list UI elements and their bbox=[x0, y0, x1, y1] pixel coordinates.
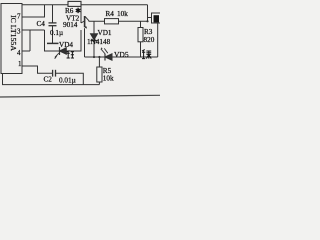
svg-text:3: 3 bbox=[17, 28, 21, 36]
wire C2 to ground bbox=[56, 73, 84, 84]
label VD4 bbox=[59, 41, 73, 49]
LED VD4 bbox=[55, 47, 67, 59]
svg-text:VD1: VD1 bbox=[98, 29, 112, 37]
label R3 bbox=[144, 28, 153, 36]
label VD1 bbox=[98, 29, 112, 37]
wire pin3 bbox=[22, 29, 45, 31]
svg-text:7: 7 bbox=[17, 13, 21, 21]
wire VD4 to base bbox=[66, 30, 81, 51]
wire relay down bbox=[157, 23, 159, 57]
label 820 bbox=[144, 36, 155, 44]
label R6 bbox=[65, 7, 81, 15]
label green char bbox=[142, 50, 151, 59]
resistor R3 bbox=[138, 21, 143, 57]
label 1N4148 bbox=[87, 38, 111, 46]
label 0.01u bbox=[59, 76, 76, 84]
wire pin4 bbox=[22, 50, 30, 52]
label VD5 bbox=[114, 50, 129, 59]
label C4 bbox=[37, 20, 46, 28]
relay K box bbox=[148, 13, 161, 23]
wire node junction vertical bbox=[29, 30, 31, 51]
svg-text:VD4: VD4 bbox=[59, 41, 73, 49]
wire to VD4 bbox=[45, 30, 60, 51]
LED VD5 bbox=[101, 47, 112, 60]
wire rail drop right bbox=[146, 5, 148, 23]
svg-text:10k: 10k bbox=[103, 75, 114, 83]
wire ground rail bbox=[3, 74, 100, 85]
svg-text:10k: 10k bbox=[117, 10, 128, 18]
diode VD1 bbox=[91, 21, 98, 58]
label VT2 bbox=[66, 15, 80, 23]
resistor R6 bbox=[68, 1, 81, 6]
svg-text:1N4148: 1N4148 bbox=[87, 38, 111, 46]
label C2 bbox=[44, 76, 53, 84]
svg-text:4: 4 bbox=[17, 49, 21, 57]
label red char bbox=[67, 51, 74, 58]
svg-text:C2: C2 bbox=[44, 76, 53, 84]
svg-text:VD5: VD5 bbox=[114, 50, 129, 59]
resistor R4 bbox=[105, 19, 119, 24]
svg-text:R3: R3 bbox=[144, 28, 153, 36]
svg-text:0.01µ: 0.01µ bbox=[59, 76, 76, 84]
wire collector to R4 bbox=[89, 20, 105, 23]
wire top rail bbox=[23, 4, 148, 6]
wire pin7 to rail bbox=[22, 5, 45, 17]
svg-text:820: 820 bbox=[144, 36, 155, 44]
wire R4 to right bbox=[119, 20, 148, 22]
svg-text:1: 1 bbox=[18, 60, 22, 68]
capacitor C4 bbox=[47, 5, 59, 44]
pin 1 bbox=[18, 60, 22, 68]
svg-text:C4: C4 bbox=[37, 20, 46, 28]
wire pin1 bbox=[22, 66, 52, 73]
transistor VT2 bbox=[81, 5, 89, 57]
border caption rule bbox=[0, 95, 160, 97]
svg-text:9014: 9014 bbox=[63, 21, 78, 29]
label 0.1u bbox=[50, 29, 63, 37]
label R4 10k bbox=[106, 10, 129, 18]
pin 4 bbox=[17, 49, 21, 57]
pin 3 bbox=[17, 28, 21, 36]
label 10k bbox=[103, 75, 114, 83]
IC label bbox=[9, 15, 18, 51]
capacitor C2 bbox=[53, 70, 56, 77]
label R5 bbox=[103, 67, 112, 75]
svg-text:0.1µ: 0.1µ bbox=[50, 29, 63, 37]
label 9014 bbox=[63, 21, 78, 29]
svg-text:R4: R4 bbox=[106, 10, 115, 18]
wire emitter rail bbox=[85, 56, 158, 58]
resistor R5 bbox=[97, 56, 102, 85]
pin 7 bbox=[17, 13, 21, 21]
op-amp U1 IC box bbox=[1, 4, 22, 74]
